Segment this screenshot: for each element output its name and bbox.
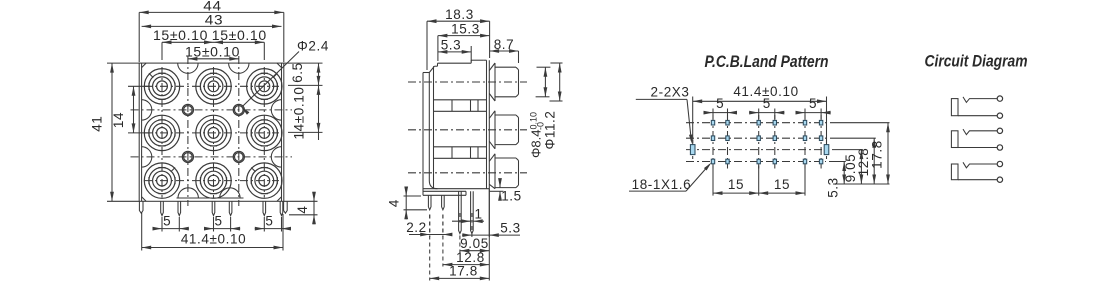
svg-text:18.3: 18.3 bbox=[445, 7, 474, 22]
svg-text:Φ2.4: Φ2.4 bbox=[297, 39, 329, 54]
svg-text:5: 5 bbox=[215, 213, 223, 228]
svg-text:15: 15 bbox=[774, 177, 790, 192]
svg-text:4: 4 bbox=[295, 205, 310, 213]
svg-text:2.2: 2.2 bbox=[406, 220, 427, 235]
svg-text:44: 44 bbox=[203, 0, 222, 13]
svg-text:41.4±0.10: 41.4±0.10 bbox=[181, 231, 246, 246]
svg-text:12.8: 12.8 bbox=[456, 250, 485, 265]
svg-text:9.05: 9.05 bbox=[460, 236, 489, 251]
svg-text:17.8: 17.8 bbox=[870, 140, 885, 169]
svg-text:17.8: 17.8 bbox=[449, 264, 478, 279]
svg-text:1: 1 bbox=[474, 207, 482, 222]
svg-text:5: 5 bbox=[763, 96, 771, 111]
svg-text:15.3: 15.3 bbox=[451, 21, 480, 36]
svg-text:14: 14 bbox=[111, 112, 126, 128]
svg-text:1.5: 1.5 bbox=[501, 189, 522, 204]
svg-text:2-2X3: 2-2X3 bbox=[651, 85, 690, 100]
svg-text:43: 43 bbox=[205, 12, 224, 27]
svg-text:P.C.B.Land Pattern: P.C.B.Land Pattern bbox=[705, 53, 829, 71]
svg-text:5.3: 5.3 bbox=[500, 221, 521, 236]
svg-text:6.5: 6.5 bbox=[290, 62, 305, 83]
svg-text:5.3: 5.3 bbox=[826, 177, 841, 198]
svg-text:Φ11.2: Φ11.2 bbox=[543, 110, 558, 149]
svg-text:Circuit Diagram: Circuit Diagram bbox=[925, 53, 1028, 71]
svg-text:15: 15 bbox=[728, 177, 744, 192]
svg-text:4: 4 bbox=[387, 199, 402, 207]
svg-text:41: 41 bbox=[90, 116, 105, 132]
svg-text:18-1X1.6: 18-1X1.6 bbox=[632, 177, 692, 192]
svg-text:5.3: 5.3 bbox=[441, 38, 462, 53]
svg-text:15±0.10: 15±0.10 bbox=[212, 28, 267, 43]
svg-text:5: 5 bbox=[163, 213, 171, 228]
svg-text:15±0.10: 15±0.10 bbox=[185, 44, 240, 59]
svg-text:5: 5 bbox=[716, 96, 724, 111]
svg-text:5: 5 bbox=[265, 213, 273, 228]
svg-text:14±0.10: 14±0.10 bbox=[292, 87, 307, 140]
svg-text:5: 5 bbox=[809, 96, 817, 111]
svg-text:15±0.10: 15±0.10 bbox=[153, 28, 208, 43]
svg-text:8.7: 8.7 bbox=[494, 37, 515, 52]
